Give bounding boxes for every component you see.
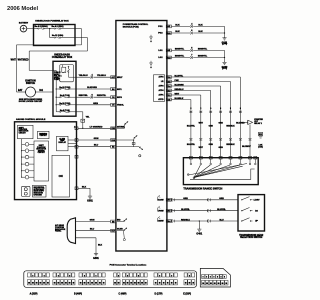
svg-text:DNSW: DNSW (157, 221, 163, 223)
svg-text:0: 0 (84, 275, 85, 277)
dimming circuit box (38, 131, 50, 138)
internal K-line arrow below E2 (116, 147, 143, 157)
internal arrow at E17 (117, 228, 127, 241)
svg-text:BRN/YEL: BRN/YEL (175, 48, 185, 50)
wire BLK PG2 to G101 (171, 30, 225, 36)
svg-text:88: 88 (138, 283, 140, 285)
wire WHT/RED from fuse No.22 to under-dash box (18, 38, 88, 71)
svg-text:BLU: BLU (219, 219, 224, 221)
title 2006 Model (7, 6, 38, 12)
transmission range switch connector (200, 268, 230, 287)
indicator lamp bus (21, 139, 23, 178)
svg-text:RED/BLK: RED/BLK (226, 144, 235, 146)
svg-text:0: 0 (171, 275, 172, 277)
svg-text:BRN/YEL: BRN/YEL (198, 56, 208, 58)
ground G501 gauge (87, 195, 93, 203)
svg-text:ON: ON (59, 174, 63, 178)
wire fuse No.8 down to MIL line junction (76, 112, 90, 129)
pin D16 NCSW (157, 195, 171, 201)
svg-text:D15: D15 (167, 210, 170, 212)
transmission gear selection switch (238, 195, 265, 240)
svg-text:DISPLAY: DISPLAY (58, 141, 66, 144)
svg-text:88: 88 (65, 283, 67, 285)
svg-text:C15: C15 (167, 81, 170, 83)
svg-text:88: 88 (73, 283, 75, 285)
svg-text:1-DRV: 1-DRV (254, 199, 261, 201)
svg-text:88: 88 (214, 283, 216, 285)
svg-text:MRLY: MRLY (117, 77, 123, 79)
svg-text:B (49P): B (49P) (74, 292, 82, 295)
svg-text:88: 88 (145, 283, 147, 285)
svg-text:A (31P): A (31P) (30, 292, 38, 295)
svg-text:NCSW: NCSW (157, 200, 163, 202)
pin C15 LR (161, 80, 172, 83)
svg-text:WHT/RED: WHT/RED (18, 59, 29, 61)
svg-text:88: 88 (40, 283, 42, 285)
svg-text:BLK: BLK (175, 24, 180, 26)
svg-text:88: 88 (130, 283, 132, 285)
svg-text:E22: E22 (259, 134, 262, 136)
wire BLK indicator to ground G501 (76, 238, 103, 252)
connector pin group 5 (122, 273, 147, 285)
svg-text:88: 88 (91, 283, 93, 285)
svg-text:VBSOL: VBSOL (117, 105, 125, 107)
wire battery to under-hood fuse box (27, 28, 34, 30)
wire PNK LR to range switch (171, 80, 235, 158)
svg-text:BLK/ORN: BLK/ORN (87, 87, 97, 89)
wire and junction to fuse No.4-1 (46, 28, 54, 29)
svg-text:CIRCUIT: CIRCUIT (19, 132, 27, 134)
svg-text:0: 0 (138, 275, 139, 277)
svg-text:88: 88 (222, 283, 224, 285)
svg-text:88: 88 (114, 283, 116, 285)
svg-text:88: 88 (99, 283, 101, 285)
wire GRN gauge pin A12 to PCM pin E10 (78, 138, 111, 140)
svg-text:D (17P): D (17P) (155, 293, 163, 295)
wire RED/YEL fuse No.9 to PCM pin C6 (76, 94, 111, 98)
svg-text:88: 88 (47, 283, 49, 285)
svg-text:RED/BLK: RED/BLK (226, 126, 235, 128)
indicator lamp 3 (21, 155, 34, 159)
svg-text:DOOR LOCKS CIRCUIT: DOOR LOCKS CIRCUIT (19, 101, 43, 103)
pin B6 (111, 88, 123, 91)
wire BLU/GRN ATP3 to range switch (171, 85, 223, 158)
svg-text:2006 Model: 2006 Model (7, 6, 38, 12)
svg-text:88: 88 (123, 283, 125, 285)
gauge pin A12 (75, 139, 78, 142)
svg-text:88: 88 (218, 283, 220, 285)
svg-text:YEL/BLU: YEL/BLU (97, 75, 107, 77)
connector E22 LOK (258, 132, 263, 148)
range switch pin 2 (199, 156, 202, 164)
ground G401 (196, 228, 202, 236)
svg-text:CIRCUIT: CIRCUIT (38, 152, 46, 154)
svg-text:PNK: PNK (175, 80, 180, 82)
svg-text:88: 88 (167, 283, 169, 285)
svg-text:C13: C13 (167, 90, 170, 92)
indicator lamp 2 (21, 149, 34, 153)
svg-text:D16: D16 (167, 200, 170, 202)
svg-text:C (49P): C (49P) (119, 292, 127, 295)
wire BLU/YEL ATP2 to range switch (171, 76, 245, 158)
svg-text:GRN: GRN (219, 123, 224, 125)
pin C14 ATP3 (159, 85, 172, 88)
svg-text:BAT: BAT (18, 89, 23, 92)
range switch pin 4 (219, 156, 222, 164)
svg-text:CIRCUIT: CIRCUIT (40, 135, 48, 137)
svg-text:RED/BLU: RED/BLU (175, 89, 184, 91)
fuse No.9 (7.5A) (59, 94, 77, 98)
wire BLK/ORN fuse No.15 to PCM pin B6 (76, 87, 111, 89)
svg-text:G401: G401 (196, 233, 202, 236)
range switch pin 1 (189, 156, 192, 164)
gauge control module (15, 118, 77, 200)
svg-text:0: 0 (96, 275, 97, 277)
connector pin group 2 (53, 273, 82, 295)
svg-text:88: 88 (185, 283, 187, 285)
wire main feed inside fuse box (34, 28, 37, 30)
svg-text:6: 6 (220, 108, 221, 110)
wire BLK PG1 to G101 (171, 23, 224, 34)
svg-text:BLU/YEL: BLU/YEL (181, 209, 190, 211)
ATP pin group bracket (154, 75, 165, 102)
shift/temp display box (57, 136, 77, 151)
svg-text:88: 88 (43, 283, 45, 285)
svg-text:No.22 (15A): No.22 (15A) (52, 34, 64, 37)
svg-text:SLMB: SLMB (117, 229, 123, 231)
svg-text:BLU/BLK: BLU/BLK (175, 98, 184, 100)
sequential sportshift indicator text box (33, 185, 47, 197)
svg-text:0: 0 (69, 275, 70, 277)
svg-text:BLK/WHT: BLK/WHT (242, 146, 251, 148)
wire branch to ground G401 (199, 220, 200, 227)
shift position indicator driver box (34, 141, 49, 181)
internal K-line arrow at E31 (117, 122, 128, 129)
svg-text:88: 88 (103, 283, 105, 285)
svg-text:8: 8 (210, 277, 211, 279)
wire BLU/YEL UPSW to gear selection switch (171, 209, 238, 212)
svg-text:No.4-1 (15A): No.4-1 (15A) (52, 25, 64, 28)
svg-text:WHT: WHT (11, 59, 17, 61)
svg-text:88: 88 (36, 283, 38, 285)
pin D15 UPSW (158, 206, 172, 212)
connector pin group 7 (183, 273, 195, 295)
svg-text:88: 88 (28, 283, 30, 285)
range switch pin 7 (249, 156, 252, 164)
svg-text:88: 88 (206, 283, 208, 285)
wire WHT from fuse box to ignition switch and gauge feed (11, 29, 82, 92)
svg-text:BLK: BLK (198, 31, 203, 33)
svg-text:9: 9 (210, 108, 211, 110)
svg-text:88: 88 (61, 283, 63, 285)
svg-text:BLU: BLU (90, 229, 95, 231)
svg-text:WHT: WHT (175, 94, 180, 96)
wire BLK/WHT starter cut branch (242, 125, 251, 158)
svg-text:BLK: BLK (98, 244, 103, 246)
wire fuse No.4-1 output to box edge (62, 28, 75, 30)
svg-text:88: 88 (210, 283, 212, 285)
fuse No.4-2 (100A) (34, 25, 47, 29)
svg-text:ORN: ORN (209, 144, 214, 146)
svg-text:BLK: BLK (175, 31, 180, 33)
svg-text:88: 88 (159, 283, 161, 285)
ground G101 top (222, 36, 228, 46)
svg-text:IND: IND (117, 220, 121, 222)
svg-text:88: 88 (155, 283, 157, 285)
wire BLU indicator to PCM pin E17 (76, 229, 111, 231)
shift position indicator circuit box (18, 125, 34, 138)
ignition switch (17, 81, 54, 103)
svg-text:SELECTION SWITCH: SELECTION SWITCH (240, 237, 263, 239)
junction to starter cut relay line (240, 122, 248, 123)
PCM internal ground LG (149, 61, 153, 69)
svg-text:0: 0 (32, 275, 33, 277)
svg-text:88: 88 (175, 283, 177, 285)
svg-text:G501: G501 (93, 258, 99, 260)
connector pin group 3 (79, 273, 105, 285)
wire LT GRN/RED gauge pin A to PCM pin E31 (78, 126, 111, 128)
svg-text:88: 88 (141, 283, 143, 285)
svg-text:0: 0 (127, 275, 128, 277)
ground G102 (222, 61, 228, 70)
wire BRN/YEL LG1 to G102 (171, 48, 224, 58)
gauge pin A (74, 126, 78, 130)
svg-text:0: 0 (189, 275, 190, 277)
pin A17 MRLY (111, 76, 124, 79)
pin C6 (111, 96, 123, 99)
svg-text:88: 88 (54, 283, 56, 285)
svg-text:88: 88 (163, 283, 165, 285)
wire RED/BLU ATP4 to range switch (171, 89, 213, 158)
wire RED/BLU DNSW to gear selection switch (171, 219, 238, 222)
svg-text:88: 88 (171, 283, 173, 285)
internal arrow at E9 (117, 219, 127, 222)
gauge pin B8 (75, 155, 78, 158)
svg-text:BLU: BLU (94, 145, 99, 147)
ground G501 indicator (93, 252, 99, 260)
wire GRN indicator to PCM pin E9 (76, 220, 111, 222)
svg-text:3: 3 (230, 108, 231, 110)
svg-text:GRN: GRN (183, 198, 188, 200)
svg-text:BLU/YEL: BLU/YEL (175, 76, 184, 78)
wire fuse No.22 output to box edge (62, 37, 75, 39)
svg-text:BLK: BLK (198, 24, 203, 26)
pin C11 ATPD (158, 98, 171, 101)
pin A10 PG2 (158, 32, 171, 35)
svg-text:BRN/YEL: BRN/YEL (175, 56, 185, 58)
connector pin group 1 (27, 273, 49, 295)
svg-text:PCM Connector Terminal Locatio: PCM Connector Terminal Locations (110, 263, 147, 266)
svg-text:0: 0 (58, 275, 59, 277)
svg-text:FUSE/RELAY BOX: FUSE/RELAY BOX (52, 56, 73, 59)
gauge pin A13 (75, 145, 78, 148)
svg-text:88: 88 (80, 283, 82, 285)
wire branch down to fuse No.22 (50, 29, 53, 38)
gauge pin B9 (75, 187, 78, 190)
svg-text:ATPD: ATPD (158, 98, 164, 101)
transmission range switch (183, 158, 258, 191)
starter cut relay 1 diode (248, 118, 264, 125)
indicator lamp 5 (21, 169, 34, 173)
connector pin group 4 (113, 273, 126, 295)
pin D14 DNSW (157, 216, 171, 222)
svg-text:88: 88 (87, 283, 89, 285)
svg-text:0: 0 (159, 275, 160, 277)
svg-text:No.4-2 (100A): No.4-2 (100A) (34, 25, 47, 28)
svg-text:88: 88 (95, 283, 97, 285)
PCM connector strip outline (24, 271, 197, 288)
svg-text:GRN: GRN (219, 147, 224, 149)
pin C16 ATP2 (159, 76, 172, 79)
PCM internal ground PG (149, 35, 153, 43)
pin C5 (111, 103, 125, 106)
wire bus inside under-dash box (53, 70, 59, 111)
svg-text:5: 5 (190, 108, 191, 110)
pin E9 (111, 220, 121, 224)
powertrain control module (PCM) (116, 21, 167, 252)
svg-text:E (31P): E (31P) (183, 293, 191, 295)
range switch pin 5 (229, 156, 232, 164)
svg-text:BRN/YEL: BRN/YEL (198, 48, 208, 50)
pin C13 ATP4 (159, 89, 172, 92)
svg-text:(C-4): (C-4) (222, 67, 227, 70)
wire GRN fuse No.26 to PCM pin C5 (76, 103, 111, 105)
wire YEL/BLU relay output to PCM pin A17 (76, 73, 111, 78)
fuse No.26 (7.5A) (59, 102, 77, 106)
fuse No.4-1 (15A) (52, 25, 64, 29)
svg-text:88: 88 (192, 283, 194, 285)
svg-text:UNDER-HOOD FUSE/RELAY BOX: UNDER-HOOD FUSE/RELAY BOX (35, 20, 69, 23)
svg-text:RED/BLU: RED/BLU (181, 219, 190, 221)
svg-text:BLU/YEL: BLU/YEL (187, 126, 196, 128)
svg-text:88: 88 (134, 283, 136, 285)
range switch wiper contacts (187, 164, 254, 180)
svg-text:LT GRN/RED: LT GRN/RED (90, 126, 103, 128)
range switch pin 6 (239, 156, 242, 164)
under-dash fuse/relay box (52, 54, 76, 117)
svg-text:(C18): (C18) (258, 146, 263, 148)
svg-text:88: 88 (58, 283, 60, 285)
svg-text:BLK: BLK (82, 186, 87, 188)
svg-text:88: 88 (84, 283, 86, 285)
wire BRN/YEL LG2 to G102 (171, 55, 225, 61)
PGM-FI main relay 1 (fuel pump) (54, 65, 76, 82)
svg-text:BLU/YEL: BLU/YEL (187, 144, 196, 146)
svg-text:TRANSMISSION RANGE SWITCH: TRANSMISSION RANGE SWITCH (183, 187, 222, 190)
svg-text:BLU/GRN: BLU/GRN (175, 85, 185, 87)
under-hood fuse/relay box (34, 20, 76, 46)
indicator lamp 4 (21, 162, 34, 166)
svg-text:8: 8 (224, 277, 225, 279)
caption PCM connector terminal locations (110, 263, 147, 266)
svg-text:88: 88 (202, 283, 204, 285)
svg-text:SWITCH: SWITCH (26, 83, 36, 85)
svg-text:8: 8 (203, 277, 204, 279)
A/T gear position indicator panel connector (55, 218, 76, 244)
svg-text:ORN: ORN (209, 126, 214, 128)
svg-text:UP/DOWN: UP/DOWN (34, 194, 43, 196)
svg-text:G501: G501 (87, 201, 93, 203)
svg-text:BLU/YEL: BLU/YEL (217, 209, 226, 211)
svg-text:IGPS: IGPS (117, 97, 122, 99)
pin E10 (111, 139, 116, 142)
wire BLK gauge pin B9 to ground G501 (78, 186, 90, 194)
svg-text:88: 88 (189, 283, 191, 285)
svg-text:RED/YEL: RED/YEL (97, 95, 107, 97)
pin E17 (111, 229, 124, 233)
svg-text:88: 88 (118, 283, 120, 285)
svg-text:GRN: GRN (219, 198, 224, 200)
svg-text:(C-4): (C-4) (222, 43, 227, 46)
svg-text:BATTERY: BATTERY (19, 21, 29, 24)
gear selection switch contacts (241, 197, 260, 223)
svg-text:GRN: GRN (90, 220, 95, 222)
wire WHT ATP1 to range switch (171, 94, 203, 158)
svg-text:0: 0 (44, 275, 45, 277)
svg-text:0: 0 (240, 108, 241, 110)
range switch pin 3 (209, 156, 212, 164)
svg-text:88: 88 (32, 283, 34, 285)
svg-text:2: 2 (200, 108, 201, 110)
svg-text:GRN: GRN (94, 138, 99, 140)
svg-text:88: 88 (69, 283, 71, 285)
battery (19, 21, 29, 32)
svg-text:RED/YEL: RED/YEL (79, 95, 89, 97)
wire BLU/BLK ATPD to range switch (171, 98, 195, 158)
svg-text:GAUGE CONTROL MODULE: GAUGE CONTROL MODULE (16, 118, 46, 121)
sequential sportshift bulbs (22, 186, 31, 196)
pin A3 PG1 (158, 25, 171, 28)
indicator lamp 1 (22, 143, 34, 147)
svg-text:C11: C11 (167, 99, 170, 101)
pin A12 LG2 (158, 56, 171, 59)
svg-text:88: 88 (225, 283, 227, 285)
svg-text:UPSW: UPSW (158, 210, 164, 212)
svg-text:C12: C12 (167, 95, 170, 97)
fuse No.8 (7.5A) (59, 109, 77, 113)
range switch pin 8 (254, 156, 257, 164)
indicator lamp 6 (21, 175, 34, 179)
svg-text:YEL/BLU: YEL/BLU (79, 75, 89, 77)
svg-text:PUMP): PUMP) (54, 79, 60, 81)
svg-text:MODULE (PCM): MODULE (PCM) (123, 26, 139, 28)
connector pin group 6 (154, 273, 178, 295)
svg-text:GRN: GRN (93, 103, 98, 105)
wire GRN NCSW to gear selection switch (171, 198, 238, 201)
pin E2 (111, 145, 116, 148)
fuse No.15 (7.5A) (59, 86, 77, 90)
wire BLU gauge pin A13 to PCM pin E2 (78, 145, 111, 147)
svg-text:88: 88 (127, 283, 129, 285)
internal node between E10 and E2 (116, 136, 137, 147)
svg-text:RELAY 1: RELAY 1 (254, 122, 262, 125)
pin C12 ATP1 (159, 94, 172, 97)
svg-text:0: 0 (118, 275, 119, 277)
svg-text:C16: C16 (167, 77, 170, 79)
svg-text:PANEL: PANEL (55, 230, 62, 233)
pin A5 LG1 (158, 49, 171, 52)
pin E31 MIL (111, 126, 126, 130)
gear position display box (52, 155, 70, 197)
fuse No.22 (15A) (52, 34, 64, 38)
